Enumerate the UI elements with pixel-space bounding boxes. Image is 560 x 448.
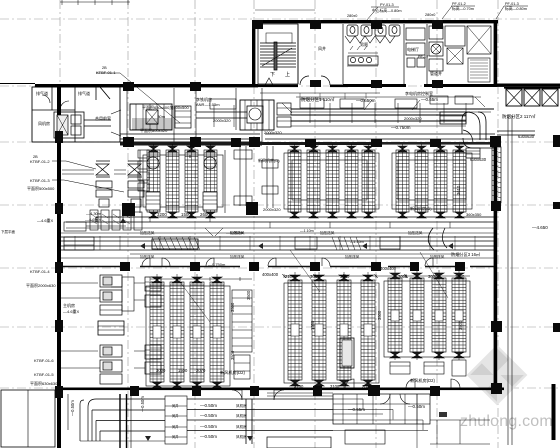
vertical duct drop x 222-250 bbox=[240, 146, 246, 206]
svg-text:凤井: 凤井 bbox=[172, 434, 178, 439]
svg-text:3500: 3500 bbox=[458, 320, 463, 330]
svg-text:3000: 3000 bbox=[428, 274, 438, 279]
upper ladder cluster 1 bbox=[140, 144, 225, 218]
svg-text:2000: 2000 bbox=[455, 274, 465, 279]
svg-text:凤井: 凤井 bbox=[172, 413, 178, 418]
svg-text:加压送凤: 加压送凤 bbox=[345, 254, 360, 259]
small box column x138-150 bbox=[138, 150, 149, 158]
vertical shaft duct on right wall with hatch bbox=[492, 147, 501, 203]
lower ladder cluster right bbox=[384, 270, 470, 376]
svg-text:凤机房: 凤机房 bbox=[236, 403, 247, 408]
annex left wall bbox=[252, 20, 255, 87]
svg-text:ANR—1.05m: ANR—1.05m bbox=[196, 102, 220, 107]
right top wall bbox=[494, 84, 560, 87]
svg-text:2000x320: 2000x320 bbox=[263, 207, 281, 212]
svg-text:主机房: 主机房 bbox=[63, 302, 75, 308]
svg-text:—0.50m: —0.50m bbox=[200, 434, 217, 439]
svg-text:2000x320: 2000x320 bbox=[404, 116, 422, 121]
svg-text:—0.50m: —0.50m bbox=[140, 396, 145, 412]
svg-text:新风机房(D2): 新风机房(D2) bbox=[410, 377, 435, 384]
svg-text:—1.10m: —1.10m bbox=[300, 229, 314, 233]
bottom rooms right bbox=[333, 394, 490, 448]
svg-text:280x0: 280x0 bbox=[347, 14, 357, 18]
svg-text:凤井: 凤井 bbox=[172, 424, 178, 429]
top margin labels bbox=[347, 2, 527, 18]
KTBF bowtie fan units upper-left bbox=[62, 150, 149, 230]
svg-text:排气道: 排气道 bbox=[78, 90, 90, 96]
svg-text:—0.50m: —0.50m bbox=[70, 400, 75, 416]
duct from left room to right bbox=[84, 120, 111, 126]
door arcs on bottom wall bbox=[142, 258, 460, 400]
partitions under wall y86 bbox=[127, 88, 262, 142]
small black mark left of watermark bbox=[439, 412, 447, 417]
bottom center box bbox=[267, 393, 333, 448]
svg-text:zhulong.com: zhulong.com bbox=[460, 413, 553, 430]
svg-text:3500: 3500 bbox=[246, 290, 251, 300]
left fan room equipment bbox=[54, 112, 84, 138]
svg-text:KTBF-01-3: KTBF-01-3 bbox=[30, 178, 50, 183]
center AHU cluster bbox=[240, 100, 274, 130]
svg-text:—0.750m: —0.750m bbox=[208, 262, 226, 267]
bottom-left box bbox=[1, 390, 55, 447]
svg-text:3500: 3500 bbox=[230, 350, 235, 360]
dim line above lower clusters bbox=[150, 250, 470, 322]
columns row y205 bbox=[122, 202, 258, 216]
svg-text:PF-01-3: PF-01-3 bbox=[505, 2, 519, 6]
svg-text:加压送凤: 加压送凤 bbox=[320, 230, 335, 235]
left main wall bbox=[57, 86, 61, 448]
svg-text:3610: 3610 bbox=[456, 185, 461, 195]
svg-text:—4.6重X: —4.6重X bbox=[37, 217, 54, 223]
svg-text:3000: 3000 bbox=[310, 274, 320, 279]
svg-text:1500: 1500 bbox=[178, 368, 188, 373]
sinks bbox=[348, 56, 378, 65]
svg-text:KTBF-01-2: KTBF-01-2 bbox=[30, 159, 50, 164]
svg-text:下: 下 bbox=[270, 72, 275, 78]
horizontal ducts across y 108-128 bbox=[196, 112, 256, 118]
svg-text:上: 上 bbox=[285, 71, 290, 78]
svg-text:2000x320: 2000x320 bbox=[213, 118, 231, 123]
svg-text:3500: 3500 bbox=[230, 302, 235, 312]
svg-text:—0.50m: —0.50m bbox=[200, 413, 217, 418]
svg-text:PF-07: PF-07 bbox=[418, 55, 428, 59]
elbows right side bbox=[466, 112, 480, 140]
svg-text:男厕: 男厕 bbox=[360, 41, 368, 47]
svg-text:凤机房: 凤机房 bbox=[236, 424, 247, 429]
annex interior bbox=[258, 24, 491, 86]
svg-text:管道井: 管道井 bbox=[430, 70, 442, 76]
lower ladder cluster middle bbox=[284, 272, 379, 388]
svg-text:3000: 3000 bbox=[156, 368, 166, 373]
svg-text:1350: 1350 bbox=[310, 320, 315, 330]
flow arrows corridor & misc bbox=[120, 218, 453, 441]
lower duct band y132-140 bbox=[120, 134, 260, 139]
right main wall bbox=[494, 137, 498, 394]
svg-text:—0.50m: —0.50m bbox=[200, 403, 217, 408]
leader lines left labels bbox=[52, 73, 180, 192]
small dim texts corridor bbox=[140, 229, 445, 259]
svg-text:400x400: 400x400 bbox=[380, 266, 397, 271]
svg-text:凤井: 凤井 bbox=[172, 403, 178, 408]
svg-text:3100: 3100 bbox=[294, 384, 304, 389]
bottom wall bbox=[57, 388, 504, 391]
svg-text:李电机房控制室: 李电机房控制室 bbox=[405, 90, 433, 96]
svg-text:平面积500x500: 平面积500x500 bbox=[27, 185, 55, 191]
svg-text:400x400: 400x400 bbox=[262, 272, 279, 277]
lower ladder cluster left bbox=[146, 274, 252, 390]
door arcs annex bottom bbox=[300, 76, 309, 85]
long duct to right bbox=[291, 109, 494, 121]
middle wall thin segments bbox=[63, 266, 494, 268]
corridor vertical at 298 bbox=[297, 24, 299, 84]
upper ladder cluster 2 bbox=[284, 144, 379, 218]
dim texts below lower cluster bbox=[1, 185, 482, 389]
upper-left main wall bbox=[35, 84, 258, 87]
svg-text:3100: 3100 bbox=[330, 384, 340, 389]
svg-text:360x350: 360x350 bbox=[466, 212, 482, 217]
corridor duct lines y 235-262 bbox=[61, 228, 494, 258]
left rooms block bbox=[32, 87, 120, 142]
svg-text:新风机房(D2): 新风机房(D2) bbox=[220, 369, 245, 376]
svg-text:凤机房: 凤机房 bbox=[38, 120, 50, 126]
stair well box bbox=[258, 24, 298, 84]
svg-text:280x0: 280x0 bbox=[425, 13, 435, 17]
bottom annotation band : nested stepped lines bbox=[68, 394, 428, 448]
upper ladder cluster 3 bbox=[392, 144, 472, 218]
svg-text:新风机房(D): 新风机房(D) bbox=[410, 205, 432, 211]
svg-text:—4.6重X: —4.6重X bbox=[63, 308, 80, 314]
svg-text:—0.50m: —0.50m bbox=[408, 404, 425, 409]
right lower edge bar bbox=[552, 384, 556, 440]
svg-text:KTBF-01-5: KTBF-01-5 bbox=[34, 372, 54, 377]
annex top wall bbox=[252, 20, 498, 23]
watermark logo diamond bbox=[460, 345, 553, 430]
right side ducts near elevators bbox=[190, 112, 535, 445]
big AHU box left-center bbox=[130, 104, 172, 130]
svg-text:标高—0.70m: 标高—0.70m bbox=[452, 6, 474, 11]
svg-text:KTBF-01-6: KTBF-01-6 bbox=[34, 358, 54, 363]
svg-text:—4.650: —4.650 bbox=[532, 225, 548, 230]
svg-text:—4.30m: —4.30m bbox=[86, 211, 102, 216]
svg-text:标高—0.80m: 标高—0.80m bbox=[505, 6, 527, 11]
upper equipment band y 95-145 bbox=[54, 88, 495, 208]
annex bottom wall segments bbox=[258, 85, 298, 88]
svg-text:3000: 3000 bbox=[398, 274, 408, 279]
svg-text:2B: 2B bbox=[33, 155, 38, 159]
svg-text:—1.10m: —1.10m bbox=[350, 240, 364, 244]
svg-text:3000: 3000 bbox=[340, 274, 350, 279]
svg-text:防烟分区2 117㎡: 防烟分区2 117㎡ bbox=[502, 113, 536, 120]
svg-text:3200: 3200 bbox=[157, 212, 167, 217]
svg-text:防烟分区3 16㎡: 防烟分区3 16㎡ bbox=[451, 251, 481, 258]
heavy duct band y 141-146 (dark) bbox=[120, 142, 495, 146]
svg-text:排气道: 排气道 bbox=[36, 90, 48, 96]
duct band y 214-222 bbox=[66, 217, 494, 228]
lower left equipment column (KTBF fans) bbox=[60, 222, 198, 384]
svg-text:3500: 3500 bbox=[377, 310, 382, 320]
vertical duct strips bottom bbox=[90, 210, 98, 230]
lower small fans duo bbox=[100, 345, 122, 357]
columns bbox=[55, 20, 560, 398]
svg-text:凤机房: 凤机房 bbox=[236, 434, 247, 439]
svg-text:—0.50m: —0.50m bbox=[200, 424, 217, 429]
svg-text:2070: 2070 bbox=[196, 368, 206, 373]
svg-text:—0.65m: —0.65m bbox=[421, 97, 438, 102]
stair treads flight bbox=[260, 43, 296, 67]
svg-text:加压送凤: 加压送凤 bbox=[140, 230, 155, 235]
svg-text:电梯厅: 电梯厅 bbox=[407, 46, 419, 52]
svg-text:KTBF-01-1: KTBF-01-1 bbox=[96, 70, 116, 75]
svg-text:PY-01-3: PY-01-3 bbox=[380, 3, 394, 7]
elevator bank top right bbox=[504, 87, 560, 106]
machine room partitions right of toilets bbox=[403, 24, 405, 86]
top edge tick marks bbox=[60, 0, 315, 10]
svg-text:平面积630x630: 平面积630x630 bbox=[30, 380, 58, 386]
svg-text:平面积630x400加500x500: 平面积630x400加500x500 bbox=[142, 104, 189, 110]
svg-text:加压送凤: 加压送凤 bbox=[230, 254, 245, 259]
svg-text:凤机房: 凤机房 bbox=[236, 413, 247, 418]
svg-text:—0.950m: —0.950m bbox=[226, 230, 244, 235]
svg-text:凤井: 凤井 bbox=[318, 45, 326, 51]
svg-text:下层平面: 下层平面 bbox=[1, 229, 15, 234]
svg-text:2100: 2100 bbox=[285, 274, 295, 279]
svg-text:2B: 2B bbox=[102, 66, 107, 70]
svg-text:PF-01-2: PF-01-2 bbox=[452, 2, 466, 6]
svg-text:加压送凤: 加压送凤 bbox=[408, 230, 423, 235]
annex right wall bbox=[494, 20, 498, 87]
toilet stalls top bbox=[345, 25, 400, 43]
extra upper band lines bbox=[291, 125, 466, 127]
svg-text:KTBF-01-4: KTBF-01-4 bbox=[30, 269, 50, 274]
svg-text:平面积2000x630: 平面积2000x630 bbox=[26, 282, 56, 288]
